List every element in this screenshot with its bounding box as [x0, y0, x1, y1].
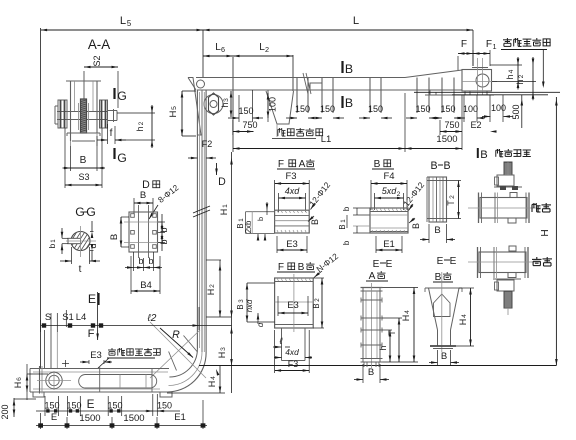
A-A trough bottom tray — [67, 132, 100, 134]
svg-text:H: H — [458, 319, 468, 326]
svg-text:1: 1 — [340, 219, 347, 223]
svg-text:T: T — [446, 200, 456, 206]
svg-text:A: A — [369, 271, 376, 282]
svg-text:5: 5 — [127, 19, 132, 28]
E-E A tube — [361, 287, 383, 289]
svg-text:E1: E1 — [174, 412, 186, 423]
svg-text:B: B — [345, 96, 353, 110]
svg-text:4: 4 — [404, 310, 411, 314]
A-A left bearing — [58, 100, 67, 128]
right-mounted tube — [479, 252, 526, 273]
svg-text:F3: F3 — [285, 171, 296, 182]
svg-text:L4: L4 — [76, 312, 87, 323]
连接形式 title — [495, 150, 497, 157]
svg-text:G: G — [75, 205, 85, 219]
section mark G lower — [113, 148, 115, 159]
svg-text:4: 4 — [508, 69, 515, 73]
svg-text:3: 3 — [223, 98, 230, 102]
svg-text:3: 3 — [238, 299, 245, 303]
svg-text:150: 150 — [368, 104, 383, 114]
left-mounted tube — [480, 198, 527, 219]
svg-text:d: d — [256, 322, 265, 327]
svg-text:E: E — [437, 256, 444, 267]
dim B A-A — [70, 146, 72, 171]
installation base line (lower floor) — [199, 365, 556, 367]
dim H4 E-E A — [383, 287, 419, 289]
dim H4 E-E B — [459, 287, 474, 289]
boot sprocket — [46, 372, 62, 388]
svg-text:150: 150 — [66, 401, 81, 411]
svg-text:H: H — [219, 209, 229, 216]
G-G keyway — [68, 238, 81, 243]
section mark B left — [477, 148, 479, 158]
F A flange body — [275, 210, 310, 233]
svg-text:6: 6 — [16, 377, 23, 381]
dim F1 — [473, 53, 490, 55]
svg-text:B: B — [236, 304, 245, 309]
svg-text:L1: L1 — [321, 134, 332, 145]
svg-text:750: 750 — [242, 120, 257, 130]
svg-text:f: f — [110, 128, 113, 139]
svg-text:E1: E1 — [383, 239, 395, 250]
svg-text:h: h — [378, 345, 388, 350]
dim E1 — [375, 236, 377, 253]
svg-text:E3: E3 — [286, 239, 298, 250]
svg-text:B: B — [480, 149, 487, 161]
svg-text:2: 2 — [518, 74, 525, 78]
svg-text:B: B — [434, 225, 440, 236]
svg-text:A-A: A-A — [88, 37, 110, 52]
B view flange body — [370, 208, 408, 233]
head section (top of vertical leg) — [188, 78, 201, 136]
svg-text:150: 150 — [415, 104, 430, 114]
svg-text:h: h — [505, 74, 515, 79]
svg-text:B: B — [298, 262, 305, 273]
svg-text:1500: 1500 — [123, 413, 144, 424]
svg-text:D: D — [218, 176, 226, 188]
svg-text:b: b — [47, 243, 57, 248]
dim H5 — [181, 91, 183, 136]
svg-text:F: F — [278, 262, 284, 273]
A-A right bearing — [100, 100, 108, 128]
dim h3 — [230, 91, 232, 117]
svg-text:H: H — [13, 382, 23, 389]
svg-text:F: F — [461, 39, 467, 50]
svg-text:B: B — [374, 159, 381, 170]
svg-text:500: 500 — [511, 104, 521, 119]
svg-text:G: G — [117, 89, 127, 103]
trough top line — [196, 77, 405, 79]
dim 4xd — [278, 193, 280, 212]
svg-text:H: H — [207, 381, 217, 388]
dim F — [457, 56, 459, 70]
svg-text:150: 150 — [44, 401, 59, 411]
svg-text:t: t — [79, 264, 82, 275]
svg-text:5: 5 — [171, 106, 178, 110]
dim H3/H1 vertical line — [206, 316, 231, 318]
svg-text:B: B — [140, 190, 146, 201]
svg-text:B: B — [338, 224, 347, 229]
svg-text:B: B — [345, 62, 353, 76]
svg-text:B: B — [441, 351, 447, 362]
svg-text:E: E — [373, 259, 380, 270]
inner hopper pentagon — [434, 294, 451, 317]
dim H2 — [206, 259, 221, 261]
svg-text:H: H — [401, 315, 411, 322]
svg-text:B: B — [443, 160, 450, 172]
svg-text:E: E — [88, 292, 96, 306]
svg-text:4xd: 4xd — [285, 186, 301, 196]
dim h2 A-A — [117, 112, 155, 114]
middle feed inlet funnel — [266, 91, 294, 124]
svg-text:B: B — [435, 272, 442, 283]
boot curve inner — [169, 349, 197, 377]
section mark B bottom — [341, 96, 343, 108]
svg-text:150: 150 — [107, 401, 122, 411]
svg-text:b: b — [148, 256, 153, 266]
svg-text:h: h — [220, 102, 230, 107]
F A left dims B1 2xb b — [246, 211, 275, 213]
dim S2 — [83, 71, 85, 108]
dimension L2 — [292, 55, 294, 91]
svg-text:B: B — [310, 219, 320, 225]
svg-text:H: H — [168, 110, 179, 117]
svg-text:100: 100 — [491, 103, 506, 113]
dim h — [382, 329, 392, 331]
svg-text:2: 2 — [138, 121, 145, 125]
svg-text:3: 3 — [220, 347, 227, 351]
dim F4 — [370, 180, 372, 210]
svg-text:nxd: nxd — [245, 299, 254, 312]
svg-text:b: b — [342, 206, 351, 211]
A-A trough walls — [70, 81, 72, 141]
svg-text:E3: E3 — [90, 350, 102, 361]
svg-text:6: 6 — [221, 45, 225, 54]
svg-text:100: 100 — [463, 104, 478, 114]
svg-text:S: S — [45, 312, 51, 323]
svg-text:H: H — [540, 229, 551, 236]
center cross mark — [62, 363, 69, 365]
svg-text:R: R — [172, 329, 180, 341]
right-mounted drive unit — [493, 278, 521, 280]
svg-text:1: 1 — [50, 239, 57, 243]
安装基准面 label — [503, 39, 512, 41]
dim H4 boot — [219, 366, 221, 394]
dim h4 — [490, 64, 522, 66]
svg-text:2: 2 — [209, 284, 216, 288]
E-E B funnel — [425, 287, 462, 289]
svg-text:S2: S2 — [92, 55, 102, 66]
svg-text:b: b — [159, 239, 169, 244]
dim B E-E B — [437, 350, 439, 366]
svg-text:4: 4 — [461, 314, 468, 318]
B view left stubs — [353, 207, 370, 209]
svg-text:150: 150 — [295, 104, 310, 114]
svg-text:F: F — [486, 39, 492, 50]
bottom flange — [430, 345, 456, 347]
section mark D — [216, 163, 218, 175]
svg-text:b: b — [342, 240, 351, 245]
svg-text:2: 2 — [449, 195, 456, 199]
svg-text:200: 200 — [0, 404, 10, 419]
svg-text:2: 2 — [397, 191, 401, 198]
boot inlet tube — [44, 330, 46, 369]
dim E3 FA — [276, 236, 278, 253]
A-A shaft crossbar — [57, 111, 108, 113]
dim 5xb2 — [374, 193, 376, 210]
svg-text:2: 2 — [314, 298, 321, 302]
inspection box on trough — [310, 83, 322, 90]
dim B top — [133, 198, 135, 214]
A-A center hub (hatched wheel) — [81, 99, 87, 133]
svg-text:150: 150 — [440, 104, 455, 114]
trough break marks — [303, 73, 308, 94]
svg-text:B: B — [109, 234, 120, 240]
svg-text:A: A — [299, 159, 306, 170]
section mark B top — [341, 61, 343, 73]
加料口中心线 label — [111, 348, 113, 350]
svg-text:E2: E2 — [470, 120, 481, 130]
dim B E-E A — [362, 364, 364, 383]
boot curve outer — [167, 353, 206, 392]
svg-text:150: 150 — [238, 106, 253, 116]
left-mounted drive unit — [504, 162, 512, 175]
svg-text:F3: F3 — [288, 359, 299, 369]
section mark G upper — [113, 88, 115, 99]
dim T — [382, 317, 402, 319]
boot flange ticks — [99, 366, 101, 392]
flange joint ticks below trough — [296, 78, 298, 109]
datum ground lines — [414, 91, 560, 93]
svg-text:5xd: 5xd — [382, 186, 398, 196]
svg-text:B: B — [430, 160, 437, 172]
svg-text:b: b — [256, 217, 265, 221]
svg-text:1: 1 — [222, 204, 229, 208]
svg-text:ℓ2: ℓ2 — [147, 313, 157, 324]
svg-text:F: F — [278, 159, 284, 170]
D flange plate — [129, 212, 158, 252]
svg-text:E3: E3 — [287, 300, 299, 311]
svg-text:F4: F4 — [383, 171, 394, 182]
tail box — [462, 70, 492, 92]
svg-text:E: E — [386, 259, 393, 270]
svg-text:h: h — [135, 126, 145, 131]
leg break symbol — [193, 206, 210, 213]
svg-text:L: L — [120, 15, 126, 27]
svg-text:E: E — [450, 256, 457, 267]
head sprocket — [204, 95, 223, 114]
svg-text:S1: S1 — [62, 312, 74, 323]
右装 label — [536, 257, 538, 259]
svg-text:E: E — [51, 412, 57, 423]
svg-text:150: 150 — [320, 104, 335, 114]
左装 label — [531, 204, 533, 212]
svg-text:B4: B4 — [140, 280, 152, 291]
svg-text:b: b — [138, 256, 143, 266]
svg-text:B: B — [411, 223, 421, 229]
dimension L5 — [40, 28, 42, 368]
G-G shaft circle hatched — [71, 232, 90, 251]
svg-text:2xb: 2xb — [244, 220, 253, 233]
svg-text:H: H — [217, 352, 227, 359]
svg-text:b: b — [159, 227, 169, 232]
svg-text:F2: F2 — [202, 139, 213, 149]
vertical leg walls — [196, 90, 198, 349]
svg-text:B: B — [368, 367, 374, 378]
svg-text:B: B — [80, 155, 87, 166]
svg-text:1500: 1500 — [436, 134, 457, 145]
G-G center lines — [66, 240, 96, 242]
boot body — [30, 368, 169, 370]
svg-text:750: 750 — [444, 120, 459, 130]
svg-text:S3: S3 — [78, 172, 89, 182]
trough bottom line — [206, 89, 462, 91]
dim h2 tail — [532, 65, 534, 92]
tail support feet — [430, 90, 436, 95]
svg-text:150: 150 — [157, 401, 172, 411]
dimension L6 — [232, 57, 234, 152]
svg-text:4: 4 — [210, 376, 217, 380]
F B flange body — [275, 278, 314, 328]
B-B channel — [429, 177, 447, 222]
curve radial flange lines — [169, 352, 177, 371]
svg-text:G: G — [117, 151, 127, 165]
svg-text:1: 1 — [492, 42, 496, 51]
svg-text:ℓ: ℓ — [279, 336, 283, 346]
svg-text:B: B — [312, 303, 321, 308]
dimension L — [472, 30, 474, 66]
svg-text:2: 2 — [265, 45, 269, 54]
svg-text:T: T — [387, 330, 397, 336]
svg-text:h: h — [515, 79, 525, 84]
boot chain slot — [79, 375, 157, 389]
dim H total — [555, 97, 557, 366]
svg-text:L: L — [353, 15, 359, 27]
svg-text:H: H — [206, 289, 216, 296]
dim F3 — [274, 180, 276, 212]
svg-text:F: F — [88, 328, 95, 340]
中间加料口 text — [277, 129, 279, 136]
dim S3 — [64, 128, 66, 188]
svg-text:E: E — [87, 397, 95, 411]
F B lower tube — [281, 328, 283, 361]
svg-text:1500: 1500 — [79, 413, 100, 424]
svg-text:4xd: 4xd — [285, 347, 299, 357]
A-A shaft stub right — [108, 110, 118, 112]
dim E3 FB — [277, 296, 279, 316]
boot feet — [33, 392, 44, 397]
